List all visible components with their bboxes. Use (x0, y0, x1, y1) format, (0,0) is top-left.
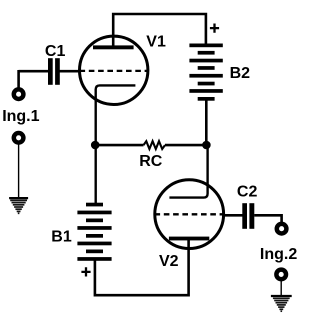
svg-text:Ing.1: Ing.1 (2, 108, 39, 125)
svg-text:B2: B2 (230, 65, 251, 82)
svg-text:V1: V1 (146, 34, 166, 51)
svg-text:C1: C1 (45, 43, 66, 60)
svg-text:B1: B1 (51, 228, 72, 245)
svg-text:RC: RC (139, 153, 163, 170)
svg-text:Ing.2: Ing.2 (260, 246, 297, 263)
svg-text:C2: C2 (237, 184, 258, 201)
svg-text:V2: V2 (159, 253, 179, 270)
